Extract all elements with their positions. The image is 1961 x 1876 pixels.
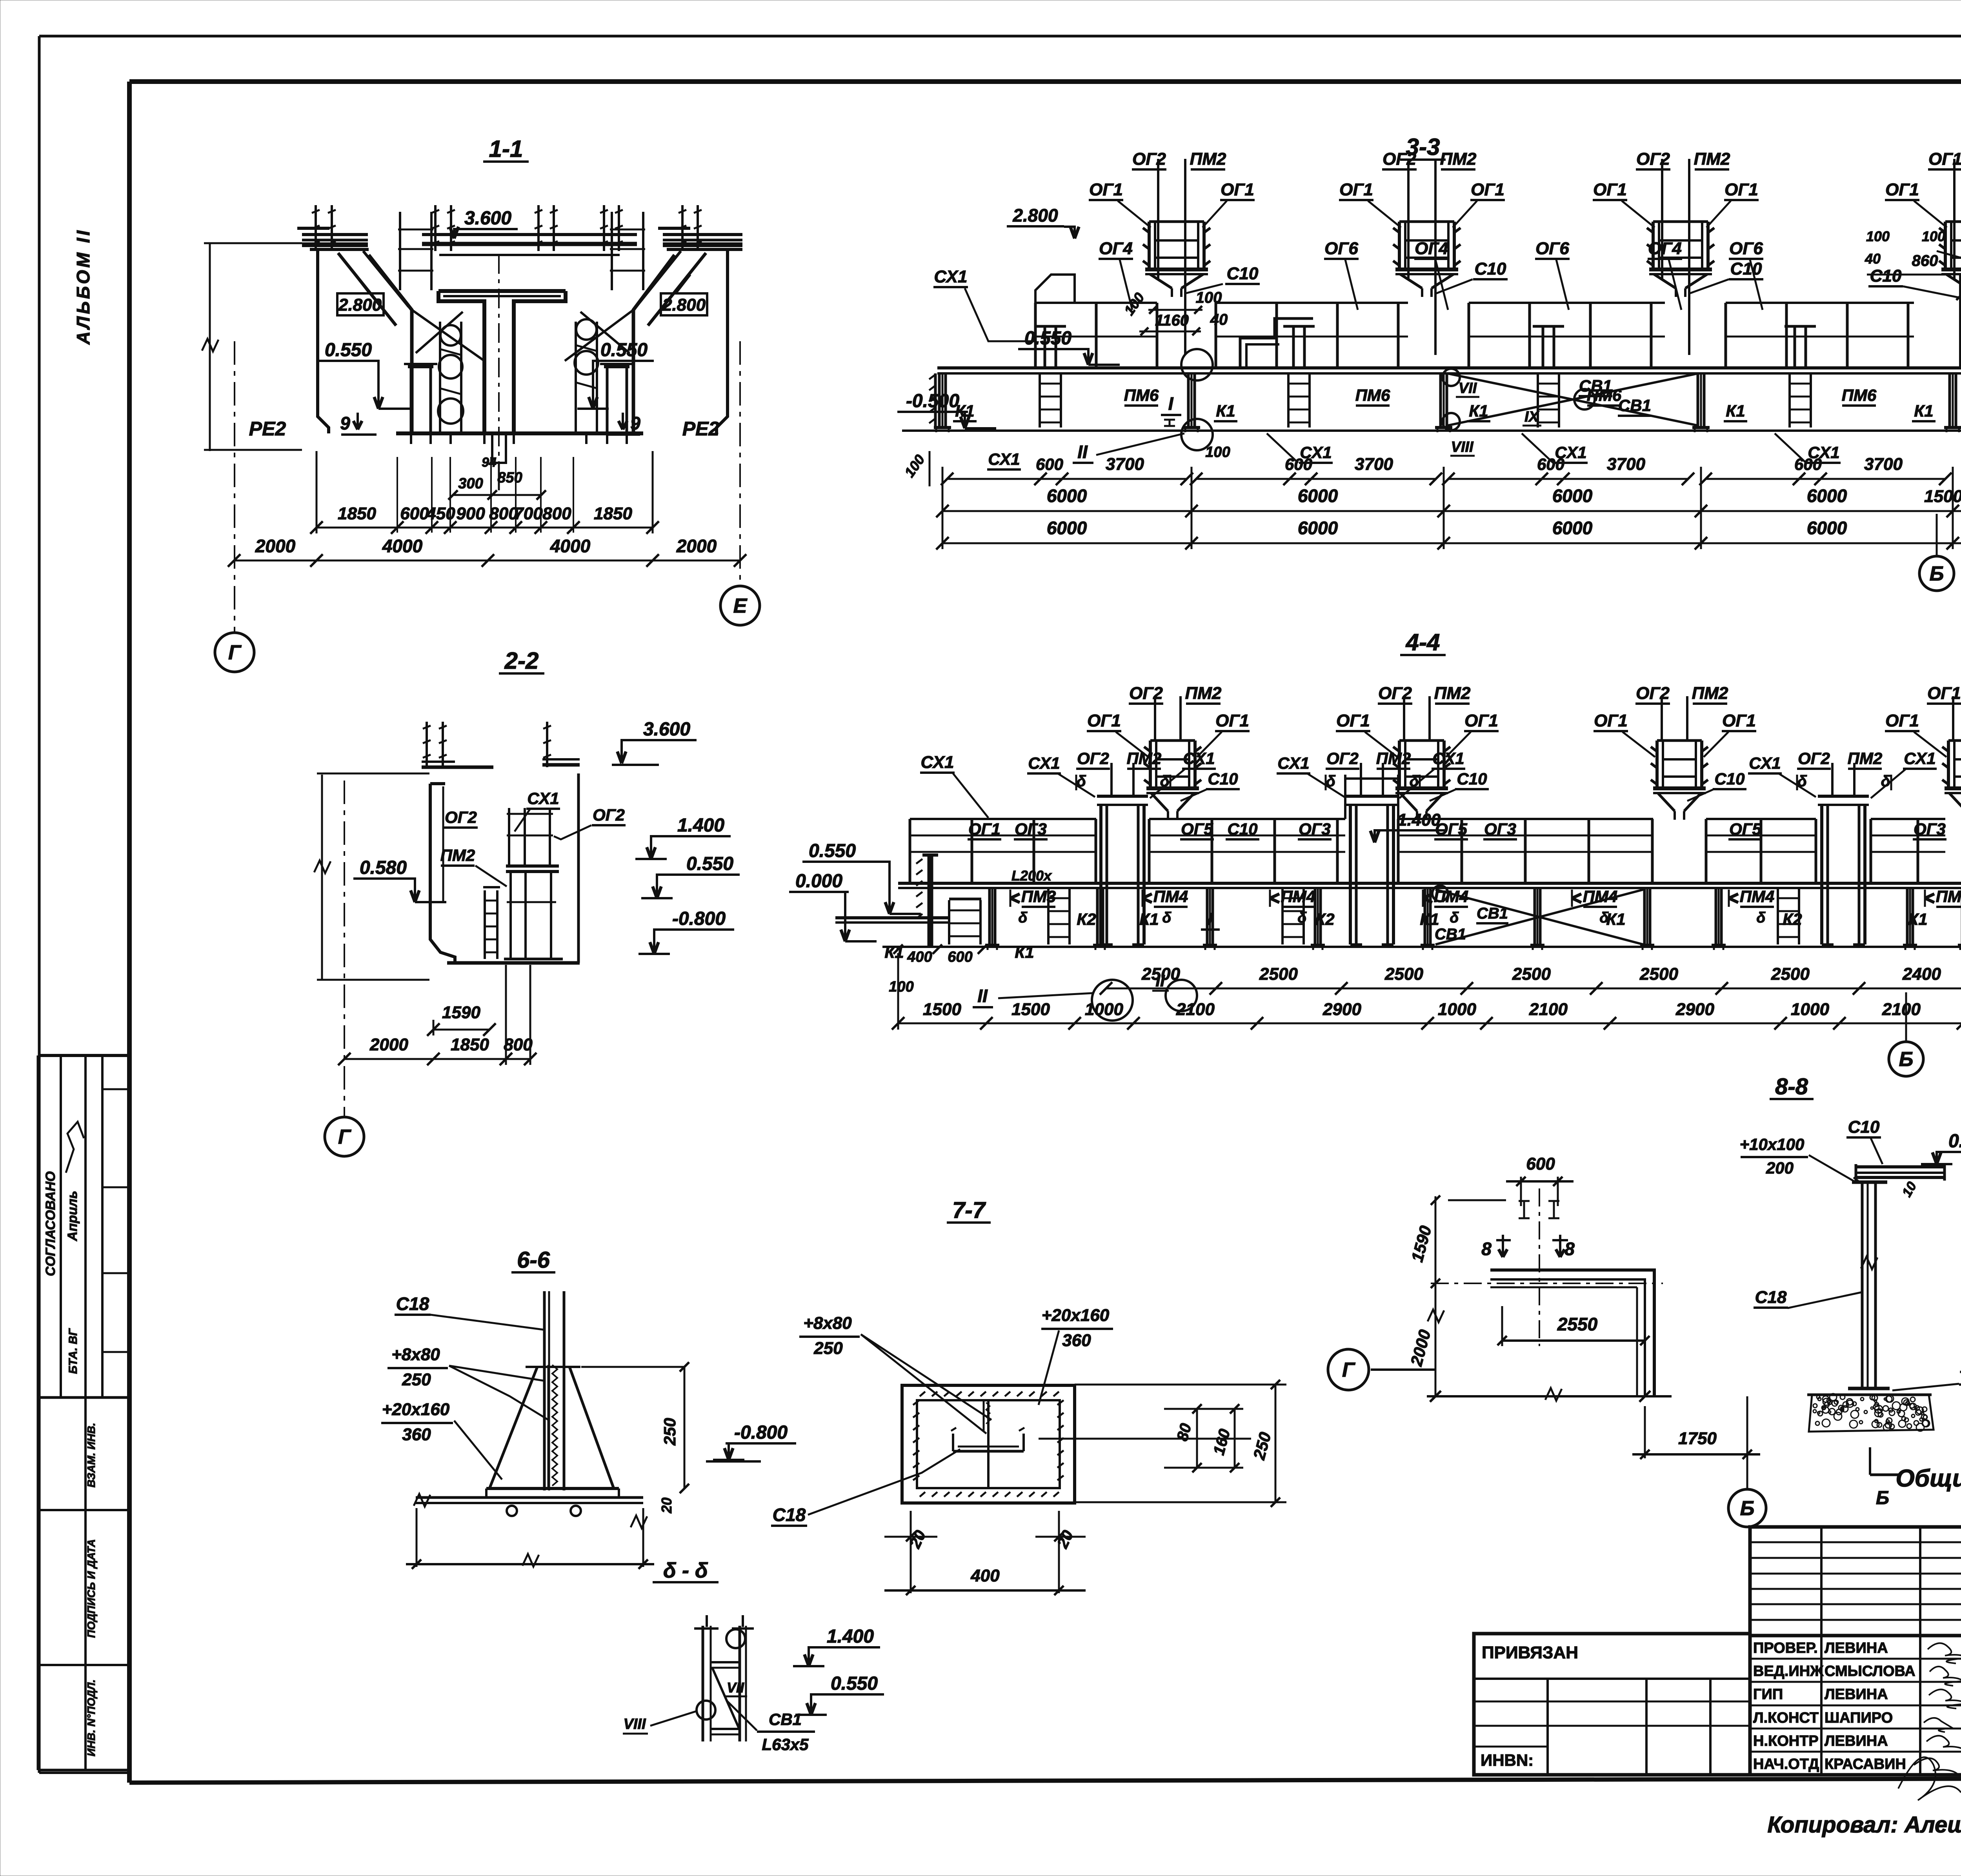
section 3-3 axis B bubble bbox=[1936, 514, 1938, 556]
svg-text:ОГ1: ОГ1 bbox=[968, 820, 1001, 838]
svg-text:6000: 6000 bbox=[1047, 486, 1087, 506]
svg-text:L63x5: L63x5 bbox=[762, 1735, 809, 1754]
svg-text:К2: К2 bbox=[1783, 910, 1802, 928]
svg-text:3.600: 3.600 bbox=[643, 719, 690, 740]
section 1-1 extension lines to dims bbox=[316, 457, 317, 533]
svg-text:С10: С10 bbox=[1457, 770, 1487, 788]
svg-text:ОГ3: ОГ3 bbox=[1299, 820, 1331, 838]
svg-text:2900: 2900 bbox=[1322, 1000, 1361, 1019]
svg-text:1.400: 1.400 bbox=[827, 1626, 874, 1647]
svg-text:L200x: L200x bbox=[1011, 868, 1052, 884]
svg-text:2500: 2500 bbox=[1384, 964, 1423, 984]
section 6-6 base break marks bbox=[414, 1494, 430, 1507]
svg-text:1.400: 1.400 bbox=[677, 815, 724, 836]
svg-text:9: 9 bbox=[630, 413, 640, 433]
section 4-4 dim chain bottom row bbox=[898, 1023, 1961, 1024]
section 8-8 bottom axis mark B bbox=[1869, 1447, 1871, 1475]
svg-text:ПОДПИСЬ И ДАТА: ПОДПИСЬ И ДАТА bbox=[85, 1539, 97, 1638]
title block small revision table bbox=[1750, 1527, 1961, 1636]
section 1-1 railing posts bbox=[315, 205, 317, 251]
svg-text:IX: IX bbox=[1524, 409, 1540, 425]
svg-text:3700: 3700 bbox=[1355, 455, 1393, 474]
svg-text:1000: 1000 bbox=[1438, 1000, 1476, 1019]
svg-text:С10: С10 bbox=[1848, 1117, 1880, 1137]
title block signature table bbox=[1750, 1636, 1961, 1775]
svg-text:100: 100 bbox=[1922, 228, 1945, 244]
section 1-1 dim chain row 2 bbox=[234, 560, 740, 562]
svg-text:6000: 6000 bbox=[1298, 518, 1338, 538]
section 8-8 column C18 bbox=[1861, 1182, 1864, 1388]
svg-text:3700: 3700 bbox=[1106, 455, 1144, 474]
svg-text:600: 600 bbox=[1036, 455, 1063, 473]
svg-text:1-1: 1-1 bbox=[489, 136, 523, 162]
svg-text:К1: К1 bbox=[1015, 943, 1034, 961]
svg-text:8-8: 8-8 bbox=[1775, 1074, 1808, 1099]
svg-text:ОГ2: ОГ2 bbox=[1636, 684, 1670, 703]
svg-text:СМЫСЛОВА: СМЫСЛОВА bbox=[1825, 1663, 1916, 1679]
svg-text:ОГ6: ОГ6 bbox=[1324, 239, 1358, 258]
svg-text:СХ1: СХ1 bbox=[1028, 754, 1060, 772]
svg-text:450: 450 bbox=[426, 504, 455, 523]
svg-text:δ: δ bbox=[1450, 910, 1459, 926]
section 1-1 pedestal right bbox=[604, 365, 629, 368]
plan detail dim 1750 bbox=[1644, 1406, 1646, 1458]
svg-text:6000: 6000 bbox=[1047, 518, 1087, 538]
svg-text:ОГ1: ОГ1 bbox=[1885, 180, 1919, 199]
section 1-1 left wall inner slope bbox=[369, 255, 412, 433]
svg-text:С10: С10 bbox=[1730, 259, 1762, 278]
svg-text:ПРИВЯЗАН: ПРИВЯЗАН bbox=[1482, 1643, 1578, 1662]
svg-text:1590: 1590 bbox=[442, 1003, 480, 1022]
svg-text:СВ1: СВ1 bbox=[1579, 377, 1612, 395]
svg-text:400: 400 bbox=[907, 949, 932, 965]
section 7-7 right dims 80 160 250 bbox=[1039, 1438, 1251, 1440]
section 8-8 cap plate bbox=[1852, 1181, 1887, 1184]
svg-text:Б: Б bbox=[1930, 562, 1944, 585]
svg-text:0.550: 0.550 bbox=[325, 340, 372, 360]
svg-text:ИНВN:: ИНВN: bbox=[1481, 1751, 1534, 1769]
section 2-2 dim 1590 bbox=[433, 1020, 435, 1035]
svg-text:ВЗАМ. ИНВ.: ВЗАМ. ИНВ. bbox=[85, 1423, 97, 1488]
svg-text:ОГ1: ОГ1 bbox=[1221, 180, 1254, 199]
svg-text:20: 20 bbox=[659, 1498, 675, 1514]
svg-text:2500: 2500 bbox=[1771, 964, 1810, 984]
svg-text:ОГ1: ОГ1 bbox=[1594, 711, 1628, 730]
svg-text:СВ1: СВ1 bbox=[1435, 926, 1466, 943]
section 3-3 guard railing panels bbox=[1035, 302, 1157, 304]
section 1-1 grid axis G bbox=[234, 341, 235, 632]
svg-text:9: 9 bbox=[340, 413, 350, 433]
svg-text:2500: 2500 bbox=[1639, 964, 1678, 984]
svg-text:2400: 2400 bbox=[1902, 964, 1941, 984]
title block privyazan box bbox=[1474, 1634, 1750, 1775]
svg-text:Б: Б bbox=[1899, 1048, 1914, 1071]
section 4-4 dim chain 2500 row bbox=[1106, 988, 1961, 990]
svg-text:К1: К1 bbox=[1216, 402, 1235, 420]
svg-text:ОГ2: ОГ2 bbox=[1378, 684, 1412, 703]
section 4-4 platform deck bbox=[898, 882, 1961, 885]
svg-text:250: 250 bbox=[813, 1339, 843, 1358]
svg-text:ОГ2: ОГ2 bbox=[1798, 749, 1830, 768]
svg-text:2100: 2100 bbox=[1529, 1000, 1568, 1019]
svg-text:-0.500: -0.500 bbox=[906, 391, 959, 411]
svg-text:2-2: 2-2 bbox=[504, 648, 539, 674]
svg-text:ПМ4: ПМ4 bbox=[1740, 887, 1775, 906]
svg-text:Копировал: Алешикова: Копировал: Алешикова bbox=[1767, 1812, 1961, 1838]
svg-text:2.800: 2.800 bbox=[662, 295, 706, 315]
section 1-1 rail group mid-right bbox=[611, 212, 613, 290]
svg-text:δ: δ bbox=[1077, 773, 1086, 790]
section 2-2 small ladder bbox=[484, 890, 486, 959]
svg-text:δ: δ bbox=[1410, 773, 1419, 790]
section 3-3 dim chain 6000 row2 bbox=[942, 542, 1961, 544]
svg-text:850: 850 bbox=[497, 469, 522, 486]
svg-text:ОГ1: ОГ1 bbox=[1928, 149, 1961, 169]
plan detail dim 2550 bbox=[1501, 1306, 1503, 1346]
svg-text:0.550: 0.550 bbox=[686, 853, 733, 874]
svg-text:С10: С10 bbox=[1714, 770, 1745, 788]
svg-text:СХ1: СХ1 bbox=[1904, 749, 1936, 768]
section 1-1 top caps bbox=[302, 233, 368, 236]
svg-text:+20x160: +20x160 bbox=[382, 1400, 450, 1419]
svg-text:1500: 1500 bbox=[1011, 1000, 1050, 1019]
plan detail bottom tick line bbox=[1427, 1395, 1672, 1397]
section 4-4 hoppers bbox=[1149, 741, 1152, 788]
section 7-7 weld tick hatching bbox=[920, 1392, 925, 1396]
section 2-2 base bbox=[447, 961, 580, 965]
section 3-3 ground line bbox=[902, 429, 1961, 432]
svg-text:2550: 2550 bbox=[1557, 1314, 1598, 1334]
svg-text:ОГ1: ОГ1 bbox=[1593, 180, 1627, 199]
svg-text:ОГ1: ОГ1 bbox=[1471, 180, 1504, 199]
svg-text:СВ1: СВ1 bbox=[1477, 905, 1508, 922]
svg-text:СХ1: СХ1 bbox=[1749, 754, 1781, 772]
section 1-1 middle platform beam 3.600 bbox=[422, 233, 637, 236]
plan detail dim 1590 vertical bbox=[1435, 1196, 1437, 1283]
svg-text:δ: δ bbox=[1162, 910, 1172, 926]
section 3-3 dim chain 6000 row1 bbox=[942, 510, 1961, 512]
section 1-1 center axis line bbox=[498, 254, 500, 493]
section 6-6 bottom dim bbox=[416, 1508, 418, 1567]
section 1-1 rail group mid-left bbox=[399, 212, 401, 290]
section 1-1 label box 2.800 right bbox=[661, 293, 707, 315]
svg-text:II: II bbox=[977, 986, 988, 1006]
section 2-2 rail above platform bbox=[508, 808, 510, 866]
svg-text:VIII: VIII bbox=[623, 1716, 646, 1732]
svg-text:2000: 2000 bbox=[676, 536, 717, 556]
svg-text:+20x100: +20x100 bbox=[1959, 1363, 1961, 1381]
section d-d bracket posts bbox=[702, 1626, 704, 1741]
svg-text:СХ1: СХ1 bbox=[1808, 443, 1839, 462]
svg-text:ПМ2: ПМ2 bbox=[1127, 749, 1162, 768]
svg-text:4000: 4000 bbox=[550, 536, 591, 556]
svg-text:ГИП: ГИП bbox=[1753, 1686, 1783, 1703]
svg-text:ПМ4: ПМ4 bbox=[1434, 887, 1469, 906]
section d-d diagonal bbox=[712, 1668, 739, 1728]
section 7-7 center stiffener cross bbox=[987, 1401, 990, 1487]
section 3-3 dim chain 600-3700 bbox=[947, 478, 1187, 480]
svg-text:С18: С18 bbox=[1755, 1288, 1787, 1307]
section 1-1 tank outline left wall bbox=[318, 251, 329, 433]
svg-text:300: 300 bbox=[458, 475, 483, 492]
svg-text:ВЕД.ИНЖ: ВЕД.ИНЖ bbox=[1753, 1663, 1824, 1679]
svg-text:ПМ4: ПМ4 bbox=[1583, 887, 1618, 906]
plan detail centerline vertical bbox=[1539, 1188, 1540, 1346]
svg-text:94: 94 bbox=[482, 455, 497, 470]
svg-text:200: 200 bbox=[1766, 1159, 1794, 1177]
svg-text:0.550: 0.550 bbox=[600, 340, 648, 360]
svg-text:ОГ1: ОГ1 bbox=[1089, 180, 1123, 199]
svg-text:0.550: 0.550 bbox=[809, 841, 856, 861]
svg-text:8: 8 bbox=[1564, 1239, 1575, 1259]
svg-text:2900: 2900 bbox=[1675, 1000, 1714, 1019]
svg-text:250: 250 bbox=[660, 1418, 679, 1446]
svg-text:Г: Г bbox=[228, 641, 242, 664]
svg-text:800: 800 bbox=[542, 504, 571, 523]
svg-text:δ: δ bbox=[1297, 910, 1307, 926]
svg-text:АЛЬБОМ II: АЛЬБОМ II bbox=[73, 228, 93, 345]
plan detail I-beam symbol bbox=[1519, 1201, 1559, 1218]
section 1-1 grid axis E bbox=[739, 341, 741, 585]
section 1-1 base center stub bbox=[492, 433, 506, 463]
section 4-4 left end lower deck bbox=[835, 916, 949, 919]
svg-text:ОГ2: ОГ2 bbox=[445, 808, 477, 826]
svg-text:VII: VII bbox=[727, 1679, 744, 1696]
section 1-1 dim chain row 1 bbox=[317, 527, 653, 529]
section 6-6 serrated stiffener bbox=[552, 1365, 557, 1486]
section 6-6 base plates bbox=[486, 1487, 619, 1490]
svg-text:К1: К1 bbox=[1139, 910, 1159, 928]
section 3-3 columns K1 bbox=[938, 373, 941, 426]
svg-text:1850: 1850 bbox=[338, 504, 376, 523]
svg-text:δ: δ bbox=[1326, 773, 1336, 790]
svg-text:400: 400 bbox=[970, 1566, 1000, 1585]
section 4-4 posts bbox=[988, 888, 991, 944]
svg-text:2.800: 2.800 bbox=[1012, 205, 1058, 226]
svg-text:6000: 6000 bbox=[1298, 486, 1338, 506]
svg-text:ОГ4: ОГ4 bbox=[1415, 239, 1448, 258]
svg-text:К2: К2 bbox=[1077, 910, 1096, 928]
svg-text:ОГ2: ОГ2 bbox=[1383, 149, 1416, 169]
svg-text:СХ1: СХ1 bbox=[1300, 443, 1332, 462]
svg-text:С10: С10 bbox=[1870, 266, 1902, 286]
svg-text:ПМ6: ПМ6 bbox=[1842, 386, 1877, 404]
svg-text:40: 40 bbox=[1210, 311, 1228, 328]
section 1-1 center T column bbox=[438, 291, 484, 433]
svg-text:С10: С10 bbox=[1208, 770, 1238, 788]
section 1-1 base line bbox=[396, 431, 643, 435]
section 8-8 top channel beam bbox=[1857, 1165, 1943, 1168]
section 4-4 towers K2 bbox=[1097, 795, 1148, 798]
svg-text:2500: 2500 bbox=[1141, 964, 1180, 984]
section 4-4 railing panels bbox=[910, 818, 1096, 820]
svg-text:С18: С18 bbox=[396, 1294, 429, 1314]
svg-text:0.550: 0.550 bbox=[831, 1673, 878, 1694]
section 4-4 unit3 tall rail 1.400 bbox=[1344, 775, 1346, 819]
svg-text:6000: 6000 bbox=[1552, 486, 1593, 506]
svg-text:ИНВ. N°ПОДЛ.: ИНВ. N°ПОДЛ. bbox=[85, 1679, 97, 1756]
svg-text:600: 600 bbox=[400, 504, 429, 523]
svg-text:ПМ2: ПМ2 bbox=[1376, 749, 1411, 768]
plan detail dim 2000 vertical bbox=[1435, 1283, 1437, 1396]
svg-text:ОГ6: ОГ6 bbox=[1729, 239, 1763, 258]
svg-text:Априль: Априль bbox=[65, 1191, 80, 1241]
svg-text:3700: 3700 bbox=[1864, 455, 1903, 474]
svg-text:40: 40 bbox=[1865, 251, 1881, 267]
svg-text:ОГ2: ОГ2 bbox=[1636, 149, 1670, 169]
svg-text:НАЧ.ОТД: НАЧ.ОТД bbox=[1753, 1756, 1819, 1772]
svg-text:Б: Б bbox=[1740, 1497, 1755, 1520]
svg-text:Е: Е bbox=[733, 595, 748, 617]
section 3-3 left railing start step bbox=[1035, 275, 1075, 303]
svg-text:1850: 1850 bbox=[594, 504, 632, 523]
plan detail axis B bubble bbox=[1728, 1489, 1766, 1527]
svg-text:К1: К1 bbox=[1606, 910, 1625, 928]
section 2-2 left dim extension bbox=[321, 775, 323, 981]
title block signatures bbox=[1898, 1643, 1961, 1800]
svg-text:КРАСАВИН: КРАСАВИН bbox=[1825, 1756, 1906, 1772]
svg-text:СХ1: СХ1 bbox=[934, 267, 967, 286]
svg-text:700: 700 bbox=[514, 504, 543, 523]
section 4-4 left end wall bbox=[928, 855, 933, 947]
svg-text:РЕ2: РЕ2 bbox=[249, 418, 286, 440]
svg-text:С10: С10 bbox=[1227, 264, 1259, 283]
section 1-1 pedestal left bbox=[408, 365, 433, 368]
svg-text:6000: 6000 bbox=[1552, 518, 1593, 538]
svg-text:0.580: 0.580 bbox=[360, 857, 407, 878]
svg-text:600: 600 bbox=[948, 949, 972, 965]
svg-text:ШАПИРО: ШАПИРО bbox=[1825, 1710, 1893, 1726]
svg-text:860: 860 bbox=[1912, 252, 1938, 269]
svg-text:1000: 1000 bbox=[1791, 1000, 1829, 1019]
svg-text:Л.КОНСТ: Л.КОНСТ bbox=[1753, 1710, 1819, 1726]
left stamp column table bbox=[38, 1054, 129, 1057]
section 8-8 base plate bbox=[1848, 1387, 1890, 1390]
svg-text:ОГ3: ОГ3 bbox=[1015, 820, 1047, 838]
section 2-2 top cap bbox=[422, 766, 493, 769]
svg-text:ОГ2: ОГ2 bbox=[1326, 749, 1359, 768]
plan detail L-shaped platform edge bbox=[1490, 1270, 1654, 1396]
svg-text:СХ1: СХ1 bbox=[527, 789, 559, 808]
svg-text:С10: С10 bbox=[1227, 820, 1257, 838]
section 1-1 tank outline right wall bbox=[717, 251, 728, 433]
svg-text:2.800: 2.800 bbox=[338, 295, 382, 315]
svg-text:-0.800: -0.800 bbox=[672, 908, 726, 929]
svg-text:Г: Г bbox=[1342, 1359, 1355, 1381]
svg-text:360: 360 bbox=[402, 1425, 431, 1444]
svg-text:С10: С10 bbox=[1475, 259, 1506, 278]
svg-text:ПРОВЕР.: ПРОВЕР. bbox=[1753, 1640, 1818, 1656]
svg-text:δ: δ bbox=[1599, 910, 1609, 926]
svg-text:100: 100 bbox=[1196, 289, 1222, 306]
outer sheet border bbox=[39, 35, 1961, 38]
svg-text:ПМ2: ПМ2 bbox=[440, 846, 475, 864]
section 8-8 concrete foundation bbox=[1807, 1394, 1932, 1396]
svg-text:ОГ1: ОГ1 bbox=[1722, 711, 1756, 730]
svg-text:СХ1: СХ1 bbox=[988, 450, 1020, 468]
svg-text:ПМ2: ПМ2 bbox=[1848, 749, 1883, 768]
section 3-3 step parapet after hopper1 bbox=[1240, 318, 1313, 368]
svg-text:ОГ1: ОГ1 bbox=[1464, 711, 1498, 730]
section 2-2 dim chain bbox=[344, 1058, 530, 1060]
section 1-1 chlorinator shaft right bbox=[575, 322, 577, 431]
svg-text:ЛЕВИНА: ЛЕВИНА bbox=[1825, 1640, 1888, 1656]
svg-text:СХ1: СХ1 bbox=[920, 753, 954, 772]
section 1-1 chlorinator shaft left bbox=[439, 322, 441, 431]
svg-text:ПМ6: ПМ6 bbox=[1124, 386, 1159, 404]
svg-text:+20x160: +20x160 bbox=[1042, 1306, 1110, 1325]
svg-text:100: 100 bbox=[1866, 228, 1890, 244]
svg-text:+10x100: +10x100 bbox=[1740, 1135, 1805, 1154]
svg-text:Н.КОНТР: Н.КОНТР bbox=[1753, 1733, 1819, 1749]
section 2-2 wall outline bbox=[430, 784, 455, 963]
section 7-7 channel section in plan bbox=[952, 1434, 954, 1451]
section 1-1 left brace cross bbox=[412, 310, 484, 361]
svg-text:К1: К1 bbox=[1908, 910, 1927, 928]
svg-text:900: 900 bbox=[456, 504, 485, 523]
plan detail axis dash horizontal bbox=[1431, 1283, 1663, 1284]
svg-text:2500: 2500 bbox=[1259, 964, 1298, 984]
svg-text:2500: 2500 bbox=[1512, 964, 1551, 984]
svg-text:600: 600 bbox=[1526, 1154, 1555, 1174]
svg-text:ОГ2: ОГ2 bbox=[1132, 149, 1166, 169]
svg-text:-0.800: -0.800 bbox=[734, 1422, 788, 1443]
svg-text:II: II bbox=[1077, 442, 1088, 462]
section 1-1 right brace cross bbox=[565, 310, 633, 361]
svg-text:6000: 6000 bbox=[1807, 486, 1847, 506]
section 4-4 ground line bbox=[882, 946, 1961, 948]
svg-text:ОГ6: ОГ6 bbox=[1535, 239, 1569, 258]
svg-text:ПМ2: ПМ2 bbox=[1434, 684, 1471, 703]
section 4-4 ladders CX1 bbox=[1047, 888, 1050, 944]
svg-text:ОГ2: ОГ2 bbox=[1077, 749, 1109, 768]
svg-text:ОГ5: ОГ5 bbox=[1729, 820, 1761, 838]
section 6-6 anchor circles bbox=[507, 1506, 517, 1516]
svg-text:0.000: 0.000 bbox=[795, 871, 842, 892]
svg-text:ПМ4: ПМ4 bbox=[1281, 887, 1316, 906]
section 7-7 base plate plan outer bbox=[902, 1385, 1075, 1503]
svg-text:360: 360 bbox=[1062, 1331, 1091, 1350]
svg-text:Б: Б bbox=[1876, 1488, 1889, 1508]
svg-text:0.580: 0.580 bbox=[1948, 1131, 1961, 1152]
svg-text:ОГ1: ОГ1 bbox=[1087, 711, 1121, 730]
svg-text:ОГ2: ОГ2 bbox=[1129, 684, 1163, 703]
section 1-1 right wall inner slope bbox=[633, 255, 675, 433]
svg-text:Г: Г bbox=[338, 1126, 351, 1148]
svg-text:ОГ1: ОГ1 bbox=[1336, 711, 1370, 730]
svg-text:2000: 2000 bbox=[255, 536, 296, 556]
svg-text:δ: δ bbox=[1881, 773, 1891, 790]
svg-text:250: 250 bbox=[402, 1370, 431, 1389]
svg-text:8: 8 bbox=[1481, 1239, 1492, 1259]
svg-text:I: I bbox=[1168, 393, 1174, 414]
section 4-4 left stair bbox=[948, 900, 950, 944]
svg-text:ОГ3: ОГ3 bbox=[1484, 820, 1516, 838]
svg-text:δ: δ bbox=[1018, 910, 1028, 926]
svg-text:К1: К1 bbox=[1914, 402, 1933, 420]
section 3-3 detail circles bbox=[1181, 349, 1213, 380]
svg-text:ПМ2: ПМ2 bbox=[1694, 149, 1730, 169]
svg-text:БТА. ВГ: БТА. ВГ bbox=[67, 1328, 80, 1374]
svg-text:ОГ1: ОГ1 bbox=[1339, 180, 1373, 199]
section 4-4 axis B bubble bbox=[1905, 992, 1907, 1041]
svg-text:ОГ3: ОГ3 bbox=[1914, 820, 1946, 838]
svg-text:К1: К1 bbox=[1469, 402, 1488, 420]
section 7-7 bottom dims 20 400 20 bbox=[910, 1511, 912, 1593]
svg-text:С18: С18 bbox=[773, 1505, 806, 1525]
svg-text:δ - δ: δ - δ bbox=[663, 1559, 708, 1582]
svg-text:ПМ6: ПМ6 bbox=[1355, 386, 1390, 404]
